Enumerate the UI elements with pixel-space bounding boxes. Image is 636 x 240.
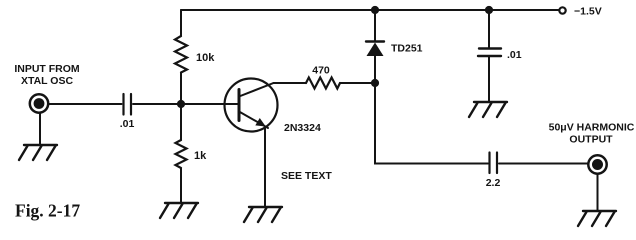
wire 10k top vertical (180, 10, 182, 36)
ground input (19, 145, 57, 160)
transistor base bar (238, 90, 241, 121)
svg-text:SEE TEXT: SEE TEXT (281, 170, 332, 182)
wire input connector down (39, 114, 41, 146)
diode D TD251 triangle (367, 43, 384, 57)
wire base (181, 103, 238, 105)
node top rail .01 cap (485, 6, 493, 14)
svg-text:50μV HARMONIC: 50μV HARMONIC (549, 122, 635, 134)
wire node down and right to 2.2 cap (375, 83, 488, 164)
terminal -1.5V (559, 7, 565, 13)
transistor emitter arrowhead (256, 119, 264, 126)
svg-text:2.2: 2.2 (486, 177, 501, 189)
capacitor C .01 input (124, 94, 132, 115)
capacitor C 2.2 (490, 153, 498, 174)
diode D TD251 bar (366, 40, 384, 42)
ground bypass cap (469, 102, 507, 117)
ground emitter (244, 207, 282, 222)
wire emitter down (264, 128, 266, 207)
wire input connector to cap (50, 103, 122, 105)
resistor R 1k (176, 140, 187, 168)
wire .01 cap top (488, 10, 490, 48)
wire diode bottom to node (374, 56, 376, 83)
wire 10k bottom to node (180, 73, 182, 105)
svg-text:1k: 1k (194, 150, 207, 162)
resistor R 470 (306, 78, 340, 89)
svg-text:INPUT FROM: INPUT FROM (14, 63, 80, 75)
wire .01 cap to ground (488, 57, 490, 102)
connector input jack (30, 94, 48, 112)
wire node down to 1k (180, 104, 182, 140)
wire collector to 470 (274, 82, 307, 84)
wire diode top (374, 10, 376, 42)
node top rail diode (371, 6, 379, 14)
node base junction (177, 100, 185, 108)
capacitor C .01 bypass (478, 49, 501, 57)
wire cap to node (133, 103, 181, 105)
wire 2.2 to output connector (499, 163, 588, 165)
wire 1k to ground (180, 168, 182, 203)
svg-text:−1.5V: −1.5V (574, 5, 602, 17)
svg-text:2N3324: 2N3324 (284, 122, 321, 134)
wire output connector down (597, 175, 599, 212)
connector output jack (588, 155, 606, 173)
transistor Q1 2N3324 circle (225, 79, 278, 132)
ground under 1k (160, 203, 198, 218)
resistor R 10k (175, 36, 187, 73)
svg-text:Fig. 2-17: Fig. 2-17 (15, 201, 80, 221)
svg-text:10k: 10k (196, 52, 215, 64)
svg-text:.01: .01 (507, 49, 522, 61)
wire top rail (181, 9, 559, 11)
svg-text:470: 470 (312, 65, 330, 77)
svg-text:XTAL OSC: XTAL OSC (21, 75, 74, 87)
transistor emitter line (239, 112, 268, 129)
svg-text:TD251: TD251 (391, 43, 423, 55)
svg-text:.01: .01 (120, 118, 135, 130)
ground output (578, 211, 616, 226)
node diode bottom (371, 79, 379, 87)
transistor collector line (239, 83, 274, 97)
svg-text:OUTPUT: OUTPUT (569, 134, 613, 146)
wire 470 to node (340, 82, 375, 84)
